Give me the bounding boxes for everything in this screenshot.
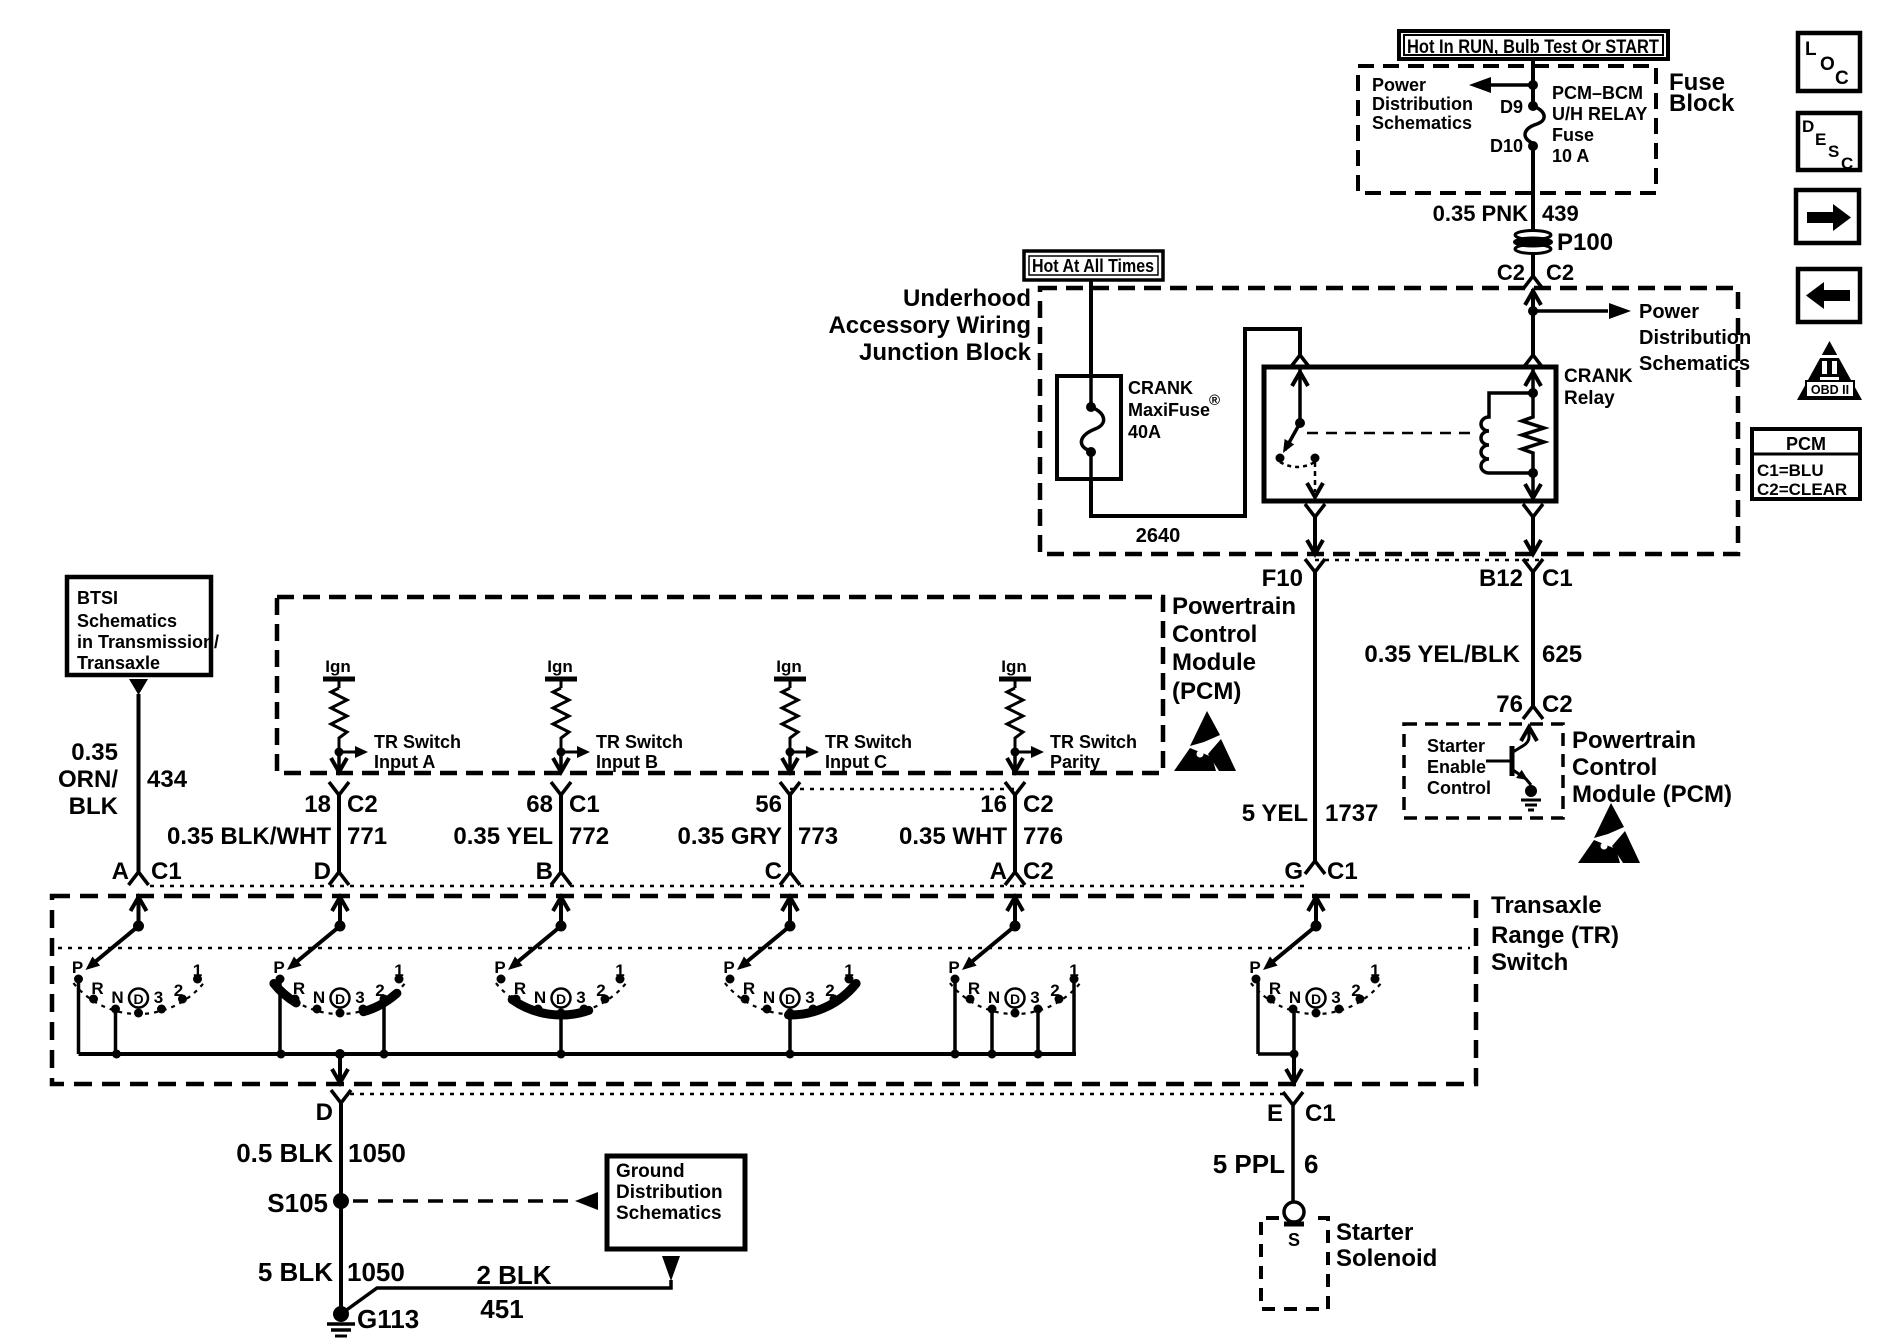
- svg-text:TR Switch: TR Switch: [1050, 732, 1137, 752]
- svg-text:Relay: Relay: [1564, 388, 1615, 409]
- svg-text:Power: Power: [1639, 301, 1699, 323]
- svg-text:BLK: BLK: [69, 793, 119, 820]
- svg-text:1: 1: [1069, 961, 1078, 980]
- svg-text:Schematics: Schematics: [616, 1203, 722, 1224]
- svg-text:ORN/: ORN/: [58, 766, 118, 793]
- TR switch wafer D: drop from contact 2: [382, 999, 386, 1054]
- svg-text:N: N: [313, 988, 325, 1007]
- svg-text:CRANK: CRANK: [1564, 366, 1633, 387]
- svg-text:Distribution: Distribution: [1372, 94, 1473, 114]
- wire from C2 into relay top: [1525, 291, 1541, 305]
- Ground Distribution Schematics box: [607, 1156, 745, 1249]
- TR switch wafer G-C1: entry arrow: [1249, 897, 1380, 1018]
- svg-text:451: 451: [480, 1294, 523, 1324]
- svg-text:68: 68: [526, 791, 553, 818]
- relay control dashed link: [1307, 432, 1478, 435]
- TR switch wafer A-C1: drop from contact N: [114, 1009, 118, 1054]
- svg-text:B: B: [536, 858, 553, 885]
- TR switch wafer C: contact arc (dashed): [725, 983, 855, 1014]
- svg-text:D: D: [556, 991, 566, 1007]
- svg-text:16: 16: [980, 791, 1007, 818]
- icon: OBD II triangle: [1797, 341, 1862, 400]
- svg-text:C1: C1: [1305, 1100, 1336, 1127]
- svg-text:TR Switch: TR Switch: [374, 732, 461, 752]
- TR switch inner dotted line: [58, 947, 1470, 950]
- wire 434: 0.35 ORN/BLK to TR switch pin A: [137, 694, 141, 872]
- svg-text:76: 76: [1496, 691, 1523, 718]
- icon: LOC button: [1798, 33, 1860, 91]
- wire 625: 0.35 YEL/BLK from B12 to 76 C2: [1531, 572, 1535, 706]
- wire into junction block with connector C2/C2: [1531, 253, 1535, 276]
- arrow from BTSI box: [129, 679, 148, 695]
- svg-text:3: 3: [355, 988, 364, 1007]
- svg-text:TR Switch: TR Switch: [825, 732, 912, 752]
- svg-text:C2=CLEAR: C2=CLEAR: [1757, 480, 1847, 499]
- svg-text:S: S: [1828, 142, 1839, 161]
- svg-text:N: N: [111, 988, 123, 1007]
- TR switch wafer B: contacts P R N D 3 2 1: [497, 975, 506, 984]
- svg-text:Input C: Input C: [825, 752, 887, 772]
- svg-text:5 BLK: 5 BLK: [258, 1257, 333, 1287]
- svg-text:R: R: [91, 979, 103, 998]
- icon: back arrow button: [1798, 269, 1860, 322]
- svg-text:D: D: [785, 991, 795, 1007]
- CRANK Relay box: [1264, 367, 1556, 501]
- svg-text:1050: 1050: [348, 1138, 406, 1168]
- TR switch wafer B: contact arc (dashed): [496, 983, 626, 1014]
- arrow to label TR Switch|Parity: [1015, 751, 1031, 754]
- svg-text:2: 2: [174, 981, 183, 1000]
- svg-text:R: R: [1269, 979, 1281, 998]
- svg-text:Solenoid: Solenoid: [1336, 1245, 1437, 1272]
- svg-text:771: 771: [347, 823, 387, 850]
- svg-text:0.35 PNK: 0.35 PNK: [1433, 201, 1528, 226]
- svg-text:Transaxle: Transaxle: [77, 653, 160, 673]
- TR switch wafer G-C1: contacts P R N D 3 2 1: [1252, 975, 1261, 984]
- svg-text:E: E: [1267, 1100, 1283, 1127]
- icon: forward arrow button: [1796, 190, 1859, 243]
- wire from Hot At All Times to CRANK MaxiFuse: [1089, 280, 1093, 377]
- svg-text:Starter: Starter: [1336, 1219, 1413, 1246]
- wire: branch to Power Distribution Schematics (left arrow): [1490, 83, 1533, 87]
- svg-text:S: S: [1288, 1230, 1300, 1250]
- svg-text:Ign: Ign: [1001, 657, 1027, 676]
- svg-text:Enable: Enable: [1427, 757, 1486, 777]
- svg-text:R: R: [514, 979, 526, 998]
- svg-text:Hot At All Times: Hot At All Times: [1032, 256, 1154, 276]
- svg-text:C2: C2: [1023, 791, 1054, 818]
- svg-text:P: P: [948, 958, 959, 977]
- ESD symbol (right PCM): [1594, 803, 1624, 838]
- svg-text:2: 2: [596, 981, 605, 1000]
- svg-text:3: 3: [1331, 988, 1340, 1007]
- svg-text:Starter: Starter: [1427, 736, 1485, 756]
- relay switch output (dashed): [1314, 462, 1317, 492]
- dotted connector link between 56 and 16: [790, 788, 1015, 791]
- resistor pull-up TR Switch|Input A: [338, 679, 341, 688]
- svg-text:Powertrain: Powertrain: [1172, 593, 1296, 620]
- svg-text:N: N: [988, 988, 1000, 1007]
- TR switch wafer D: contact arc (dashed): [275, 983, 405, 1014]
- svg-text:1: 1: [615, 961, 624, 980]
- arrow to label TR Switch|Input B: [561, 751, 577, 754]
- svg-text:6: 6: [1304, 1149, 1318, 1179]
- svg-text:Range (TR): Range (TR): [1491, 922, 1619, 949]
- svg-text:F10: F10: [1262, 565, 1303, 592]
- svg-text:Control: Control: [1572, 754, 1657, 781]
- legend: PCM connector colors: [1752, 429, 1860, 499]
- TR switch wafer A-C2: drop from contact N: [990, 1009, 994, 1054]
- label box: Hot At All Times: [1024, 251, 1163, 280]
- svg-text:BTSI: BTSI: [77, 588, 118, 608]
- TR switch wafer A-C2: contact arc (dashed): [950, 983, 1080, 1014]
- svg-text:0.35 BLK/WHT: 0.35 BLK/WHT: [167, 823, 331, 850]
- svg-text:Input B: Input B: [596, 752, 658, 772]
- svg-text:D9: D9: [1500, 97, 1523, 117]
- svg-text:P: P: [723, 958, 734, 977]
- wire 451: 2 BLK to Ground Distribution Schematics: [341, 1280, 671, 1314]
- svg-text:772: 772: [569, 823, 609, 850]
- relay output wires exiting junction block: [1305, 504, 1325, 517]
- svg-text:2: 2: [375, 981, 384, 1000]
- svg-text:S105: S105: [267, 1188, 328, 1218]
- svg-text:1: 1: [193, 961, 202, 980]
- svg-text:C2: C2: [1546, 260, 1574, 285]
- ESD symbol (left PCM): [1190, 711, 1220, 746]
- splice S105: [333, 1193, 349, 1209]
- svg-text:A: A: [112, 858, 129, 885]
- svg-text:3: 3: [805, 988, 814, 1007]
- Starter Enable Control dashed box: [1404, 724, 1563, 818]
- svg-text:1: 1: [844, 961, 853, 980]
- wire 0.35 GRY 773 down to TR switch: [788, 752, 792, 769]
- svg-text:D10: D10: [1490, 136, 1523, 156]
- node: fuse block feed junction: [1528, 80, 1538, 90]
- wire: branch to Power Distribution Schematics (right arrow): [1533, 309, 1608, 313]
- svg-text:D: D: [1802, 117, 1814, 136]
- svg-text:0.35 YEL: 0.35 YEL: [453, 823, 553, 850]
- svg-text:Underhood: Underhood: [903, 285, 1031, 312]
- svg-text:Transaxle: Transaxle: [1491, 892, 1602, 919]
- svg-text:625: 625: [1542, 641, 1582, 668]
- svg-text:TR Switch: TR Switch: [596, 732, 683, 752]
- TR switch output E: [1292, 1054, 1296, 1080]
- svg-text:Schematics: Schematics: [77, 611, 177, 631]
- svg-text:PCM: PCM: [1786, 434, 1826, 454]
- svg-text:1: 1: [1370, 961, 1379, 980]
- icon: DESC button: [1798, 113, 1860, 170]
- dashed reference wire to Ground Distribution Schematics: [353, 1199, 574, 1203]
- wire 1737: 5 YEL from F10 to G C1: [1313, 572, 1317, 861]
- svg-text:O: O: [1820, 54, 1835, 75]
- svg-text:Control: Control: [1172, 621, 1257, 648]
- svg-text:Junction Block: Junction Block: [859, 339, 1032, 366]
- TR switch wafer A-C1: entry arrow: [72, 897, 203, 1059]
- node: TR Switch|Parity junction: [1011, 748, 1020, 757]
- arrow to label TR Switch|Input A: [339, 751, 355, 754]
- svg-text:C: C: [765, 858, 782, 885]
- TR switch connector dotted line (top): [150, 885, 1305, 888]
- svg-text:Module (PCM): Module (PCM): [1572, 781, 1732, 808]
- TR switch main bus: [79, 1052, 1077, 1056]
- svg-text:434: 434: [147, 766, 188, 793]
- resistor pull-up TR Switch|Input B: [560, 679, 563, 688]
- ground G113: [333, 1306, 349, 1322]
- svg-text:Schematics: Schematics: [1372, 113, 1472, 133]
- Starter Solenoid dashed box: [1261, 1218, 1328, 1309]
- TR switch wafer A-C2: entry arrow: [948, 897, 1079, 1059]
- svg-text:P: P: [1249, 958, 1260, 977]
- svg-text:OBD II: OBD II: [1811, 383, 1849, 397]
- svg-text:Powertrain: Powertrain: [1572, 727, 1696, 754]
- svg-text:P: P: [273, 958, 284, 977]
- TR switch wafer B: drop from contact D: [559, 1013, 563, 1054]
- svg-text:Distribution: Distribution: [1639, 327, 1751, 349]
- svg-text:0.5 BLK: 0.5 BLK: [236, 1138, 333, 1168]
- svg-text:776: 776: [1023, 823, 1063, 850]
- svg-text:R: R: [968, 979, 980, 998]
- svg-text:C1: C1: [569, 791, 600, 818]
- svg-text:L: L: [1805, 39, 1817, 60]
- wire 6: 5 PPL to starter solenoid: [1291, 1105, 1295, 1203]
- svg-text:5 YEL: 5 YEL: [1242, 800, 1308, 827]
- relay contact (NO): [1311, 454, 1320, 463]
- svg-text:3: 3: [154, 988, 163, 1007]
- TR switch wafer A-C2: contacts P R N D 3 2 1: [951, 975, 960, 984]
- svg-text:U/H RELAY: U/H RELAY: [1552, 104, 1647, 124]
- svg-text:C2: C2: [1023, 858, 1054, 885]
- wire 1050: 5 BLK: [339, 1201, 343, 1314]
- svg-text:2 BLK: 2 BLK: [476, 1260, 551, 1290]
- svg-text:G113: G113: [357, 1304, 419, 1334]
- TR switch wafer D: rotor lever: [335, 921, 346, 932]
- TR switch wafer D: entry arrow: [273, 897, 404, 1059]
- TR switch wafer G-C1 mini bus: [1258, 1052, 1295, 1056]
- svg-text:773: 773: [798, 823, 838, 850]
- svg-text:Ground: Ground: [616, 1161, 685, 1182]
- TR switch wafer A-C2: drop from contact 1: [1072, 979, 1076, 1054]
- svg-text:Hot In RUN, Bulb Test Or START: Hot In RUN, Bulb Test Or START: [1407, 37, 1659, 58]
- svg-text:CRANK: CRANK: [1128, 378, 1193, 398]
- svg-text:Control: Control: [1427, 778, 1491, 798]
- connector P100 grommet: [1515, 231, 1551, 240]
- wire 0.35 YEL 772 down to TR switch: [559, 752, 563, 769]
- resistor pull-up TR Switch|Parity: [1014, 679, 1017, 688]
- svg-text:5 PPL: 5 PPL: [1213, 1149, 1285, 1179]
- TR switch wafer B: rotor lever: [556, 921, 567, 932]
- wire 0.35 BLK/WHT 771 down to TR switch: [337, 752, 341, 769]
- svg-text:N: N: [534, 988, 546, 1007]
- svg-text:Fuse: Fuse: [1552, 125, 1594, 145]
- svg-text:Distribution: Distribution: [616, 1182, 723, 1203]
- svg-text:2: 2: [825, 981, 834, 1000]
- Transaxle Range (TR) Switch dashed box: [52, 896, 1476, 1084]
- svg-text:P: P: [494, 958, 505, 977]
- svg-text:0.35: 0.35: [71, 739, 118, 766]
- svg-text:C2: C2: [1542, 691, 1573, 718]
- PCM TR switch inputs dashed box: [277, 597, 1163, 773]
- svg-text:R: R: [743, 979, 755, 998]
- TR switch wafer C: contacts P R N D 3 2 1: [726, 975, 735, 984]
- svg-text:Switch: Switch: [1491, 949, 1568, 976]
- TR switch output D: [335, 1049, 345, 1059]
- svg-text:10 A: 10 A: [1552, 146, 1589, 166]
- svg-text:D: D: [1311, 991, 1321, 1007]
- TR switch wafer C: rotor lever: [785, 921, 796, 932]
- svg-text:Parity: Parity: [1050, 752, 1100, 772]
- svg-text:E: E: [1815, 130, 1826, 149]
- svg-text:C1: C1: [1327, 858, 1358, 885]
- transistor emitter ground: [1525, 785, 1537, 797]
- node: TR Switch|Input C junction: [786, 748, 795, 757]
- relay switch armature: [1298, 368, 1302, 423]
- svg-text:Block: Block: [1669, 90, 1735, 117]
- label box: Hot In RUN, Bulb Test Or START: [1399, 31, 1668, 59]
- Fuse Block dashed box: [1358, 66, 1656, 193]
- svg-text:C2: C2: [1497, 260, 1525, 285]
- svg-text:N: N: [763, 988, 775, 1007]
- svg-text:C1=BLU: C1=BLU: [1757, 461, 1824, 480]
- svg-text:P: P: [72, 958, 83, 977]
- wafer G-C1 drops: [1256, 980, 1260, 1054]
- relay coil winding: [1481, 393, 1533, 473]
- svg-text:3: 3: [1030, 988, 1039, 1007]
- TR switch wafer A-C2: drop from contact P: [953, 979, 957, 1054]
- svg-text:P100: P100: [1557, 229, 1613, 256]
- svg-text:MaxiFuse: MaxiFuse: [1128, 400, 1210, 420]
- svg-text:Ign: Ign: [547, 657, 573, 676]
- svg-text:1: 1: [394, 961, 403, 980]
- svg-text:0.35 GRY: 0.35 GRY: [678, 823, 783, 850]
- svg-text:0.35 WHT: 0.35 WHT: [899, 823, 1007, 850]
- svg-text:D: D: [1010, 991, 1020, 1007]
- TR switch wafer A-C1: contact arc (dashed): [73, 983, 203, 1014]
- svg-text:3: 3: [576, 988, 585, 1007]
- svg-text:1737: 1737: [1325, 800, 1378, 827]
- svg-text:2: 2: [1351, 981, 1360, 1000]
- svg-text:B12: B12: [1479, 565, 1523, 592]
- TR switch wafer B: wiper segment: [512, 1000, 589, 1015]
- wire: hot feed into fuse block: [1531, 59, 1535, 106]
- TR switch wafer A-C2: rotor lever: [1010, 921, 1021, 932]
- TR switch wafer B: entry arrow: [494, 897, 625, 1059]
- svg-text:2: 2: [1050, 981, 1059, 1000]
- wire 1050: 0.5 BLK: [339, 1103, 343, 1201]
- TR switch wafer C: entry arrow: [723, 897, 856, 1059]
- resistor pull-up TR Switch|Input C: [789, 679, 792, 688]
- node: TR Switch|Input A junction: [335, 748, 344, 757]
- svg-text:439: 439: [1542, 201, 1579, 226]
- svg-text:Input A: Input A: [374, 752, 435, 772]
- svg-text:Accessory Wiring: Accessory Wiring: [828, 312, 1031, 339]
- svg-text:40A: 40A: [1128, 422, 1161, 442]
- svg-text:Ign: Ign: [325, 657, 351, 676]
- svg-text:(PCM): (PCM): [1172, 678, 1241, 705]
- relay coil resistor: [1531, 368, 1535, 393]
- TR switch wafer G-C1: rotor lever: [1311, 921, 1322, 932]
- svg-text:18: 18: [304, 791, 331, 818]
- TR switch wafer D: wiper segment: [363, 993, 397, 1012]
- svg-text:D: D: [316, 1099, 333, 1126]
- svg-text:D: D: [133, 991, 143, 1007]
- svg-text:2640: 2640: [1136, 525, 1181, 547]
- TR switch wafer A-C1: contacts P R N D 3 2 1: [74, 975, 83, 984]
- TR switch wafer D: wiper segment: [274, 984, 296, 1003]
- svg-text:in Transmission/: in Transmission/: [77, 632, 219, 652]
- svg-text:Ign: Ign: [776, 657, 802, 676]
- TR switch wafer C: drop from contact D: [788, 1013, 792, 1054]
- wire 439: 0.35 PNK from fuse to P100: [1531, 146, 1535, 231]
- TR switch wafer D: drop from contact P: [278, 979, 282, 1054]
- TR switch wafer C: wiper segment: [789, 984, 857, 1016]
- wire 2640 from MaxiFuse to CRANK relay: [1091, 329, 1300, 516]
- svg-text:G: G: [1284, 858, 1303, 885]
- node: TR Switch|Input B junction: [557, 748, 566, 757]
- svg-text:C1: C1: [1542, 565, 1573, 592]
- TR switch wafer A-C2: drop from contact 3: [1036, 1009, 1040, 1054]
- svg-text:1050: 1050: [347, 1257, 405, 1287]
- TR switch wafer A-C1: drop from contact P: [77, 979, 81, 1054]
- wire 0.35 WHT 776 down to TR switch: [1013, 752, 1017, 769]
- TR switch wafer D: contacts P R N D 3 2 1: [276, 975, 285, 984]
- svg-text:D: D: [314, 858, 331, 885]
- CRANK MaxiFuse 40A box: [1057, 376, 1121, 479]
- starter solenoid S terminal: [1284, 1202, 1304, 1222]
- svg-text:D: D: [335, 991, 345, 1007]
- relay contact (NC): [1276, 454, 1285, 463]
- svg-text:C: C: [1841, 154, 1853, 173]
- svg-text:C: C: [1835, 68, 1849, 89]
- svg-text:®: ®: [1209, 392, 1220, 409]
- transistor Q (starter enable driver): [1486, 760, 1512, 763]
- PCM boundary dotted line at F10/B12: [1315, 559, 1543, 562]
- svg-text:PCM–BCM: PCM–BCM: [1552, 83, 1643, 103]
- svg-text:56: 56: [755, 791, 782, 818]
- svg-text:Module: Module: [1172, 649, 1256, 676]
- svg-text:N: N: [1289, 988, 1301, 1007]
- TR switch wafer G-C1: contact arc (dashed): [1251, 983, 1381, 1014]
- TR switch connector dotted line (bottom): [350, 1093, 1283, 1096]
- arrow to label TR Switch|Input C: [790, 751, 806, 754]
- fuse: PCM-BCM U/H RELAY Fuse 10 A between D9 and D10: [1528, 101, 1538, 111]
- BTSI Schematics in Transmission/Transaxle box: [67, 577, 211, 675]
- svg-text:C2: C2: [347, 791, 378, 818]
- svg-text:Power: Power: [1372, 75, 1426, 95]
- TR switch wafer A-C1: rotor lever: [133, 921, 144, 932]
- svg-text:Schematics: Schematics: [1639, 353, 1750, 375]
- svg-text:A: A: [990, 858, 1007, 885]
- svg-text:0.35 YEL/BLK: 0.35 YEL/BLK: [1364, 641, 1520, 668]
- Underhood Accessory Wiring Junction Block dashed box: [1040, 288, 1738, 554]
- svg-text:C1: C1: [151, 858, 182, 885]
- svg-text:R: R: [293, 979, 305, 998]
